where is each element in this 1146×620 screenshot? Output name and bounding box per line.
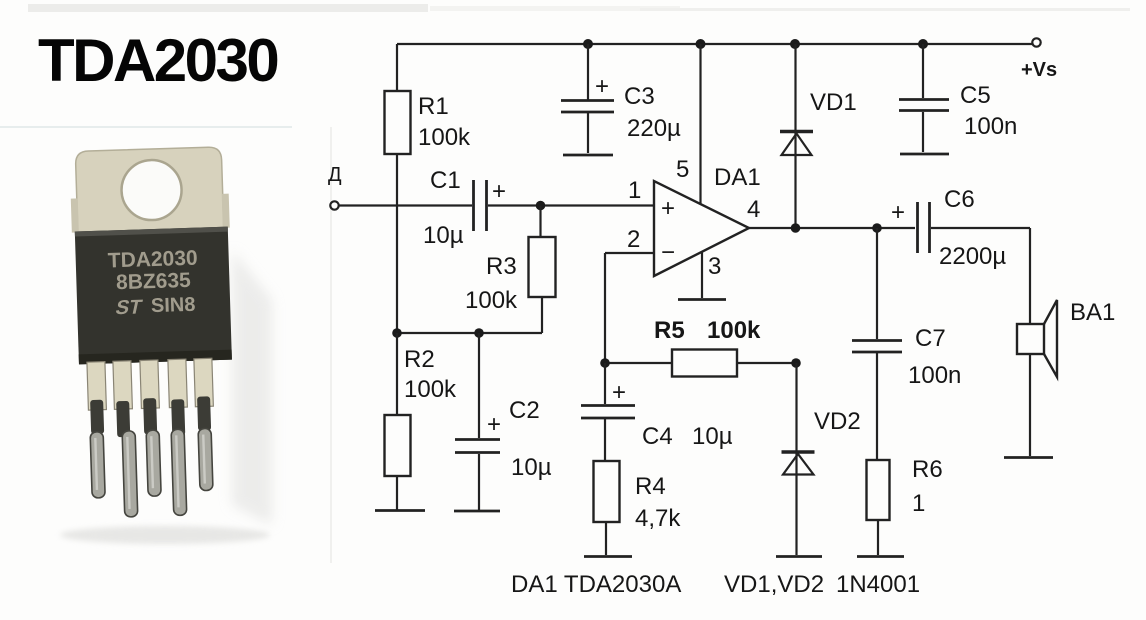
svg-text:3: 3: [708, 253, 721, 280]
svg-text:R2: R2: [404, 346, 435, 373]
wire R2 bottom: [396, 476, 398, 510]
speaker BA1: [1017, 300, 1057, 377]
op-amp DA1: [654, 181, 749, 276]
svg-text:R5: R5: [654, 317, 685, 344]
svg-text:R4: R4: [635, 473, 666, 500]
ground R2: [375, 509, 425, 512]
wire C4 top: [604, 363, 606, 404]
svg-text:C5: C5: [960, 82, 991, 109]
svg-text:100n: 100n: [964, 113, 1017, 140]
node top-VD1: [790, 39, 800, 49]
svg-text:2: 2: [627, 226, 640, 253]
resistor R6: [867, 460, 890, 520]
IC leg bends: [90, 396, 211, 438]
ground C2: [454, 510, 500, 513]
IC metal tab: [75, 147, 224, 236]
node pin2-C4: [600, 358, 610, 368]
wire C5 top: [922, 44, 924, 98]
svg-text:+: +: [595, 73, 609, 100]
capacitor C5: [899, 100, 949, 111]
svg-text:SIN8: SIN8: [151, 294, 196, 317]
wire C7 top: [876, 228, 878, 339]
wire C4 to R4: [604, 419, 606, 461]
IC body text: [107, 247, 199, 320]
node out-VD1: [791, 223, 801, 233]
IC photo: [60, 147, 272, 544]
wire C2 bottom: [478, 454, 480, 510]
svg-text:5: 5: [676, 156, 689, 183]
wire pin5: [699, 44, 701, 204]
svg-text:C6: C6: [944, 186, 975, 213]
ground R4: [584, 555, 632, 558]
svg-text:VD1: VD1: [810, 89, 857, 116]
ground C5: [900, 153, 949, 156]
wire R5 left: [605, 362, 672, 364]
svg-text:100n: 100n: [908, 362, 961, 389]
resistor R1: [385, 91, 411, 154]
ground C3: [563, 154, 613, 157]
node bias-R2: [392, 328, 402, 338]
wire C3 bottom: [587, 113, 589, 153]
svg-text:C4: C4: [642, 423, 673, 450]
wire C2 top: [478, 333, 480, 438]
svg-text:BA1: BA1: [1070, 299, 1115, 326]
wire R6 bottom: [877, 520, 879, 555]
svg-text:C7: C7: [915, 325, 946, 352]
node bias-C2: [474, 328, 484, 338]
node top-C5: [918, 39, 928, 49]
wire output: [749, 227, 915, 229]
ground pin3: [678, 298, 726, 301]
node top-pin5: [696, 39, 706, 49]
schematic labels: [328, 59, 1115, 598]
node out-C7: [872, 223, 882, 233]
wire R4 bottom: [605, 522, 607, 555]
wire R1 bottom to bias node: [396, 154, 398, 333]
svg-text:100k: 100k: [404, 376, 457, 403]
svg-text:C3: C3: [624, 83, 655, 110]
resistor R3: [529, 237, 556, 297]
terminal +Vs: [1032, 38, 1040, 46]
svg-text:DA1 TDA2030A: DA1 TDA2030A: [511, 571, 681, 598]
diode VD1: [780, 132, 813, 156]
svg-text:VD2: VD2: [814, 408, 861, 435]
svg-text:+: +: [492, 178, 506, 205]
capacitor C6: [918, 202, 930, 253]
svg-text:4: 4: [747, 196, 760, 223]
wire top supply rail: [397, 43, 1036, 45]
node top-C3: [583, 39, 593, 49]
terminal input: [330, 201, 338, 209]
ground VD2: [776, 555, 822, 558]
capacitor C3: [561, 101, 614, 113]
capacitor C1: [474, 180, 487, 231]
svg-text:4,7k: 4,7k: [635, 505, 681, 532]
svg-text:+: +: [661, 195, 675, 222]
svg-text:10µ: 10µ: [511, 454, 552, 481]
wire C6 to speaker: [931, 228, 1030, 324]
wire C7 to R6: [876, 353, 878, 460]
wire R5 right: [737, 362, 796, 364]
IC lower legs: [90, 428, 214, 518]
wire C3 top: [587, 44, 589, 100]
svg-text:+: +: [612, 379, 626, 406]
svg-text:R1: R1: [418, 93, 449, 120]
svg-text:+: +: [891, 199, 905, 226]
IC body: [75, 227, 232, 365]
wire VD1: [794, 44, 796, 228]
ground BA1: [1004, 456, 1053, 459]
IC tab hole: [121, 159, 183, 221]
resistor R5: [672, 350, 737, 377]
wire R3 bottom: [541, 297, 543, 333]
wire VD2: [795, 363, 797, 555]
svg-text:2200µ: 2200µ: [939, 243, 1006, 270]
wire pin3: [701, 252, 703, 298]
svg-text:R6: R6: [912, 456, 943, 483]
wire R1 top: [396, 44, 398, 91]
svg-text:10µ: 10µ: [692, 423, 733, 450]
svg-text:+Vs: +Vs: [1021, 59, 1057, 81]
resistor R2: [385, 415, 411, 476]
svg-text:DA1: DA1: [714, 164, 761, 191]
svg-text:R3: R3: [486, 253, 517, 280]
svg-text:100k: 100k: [418, 124, 471, 151]
diode VD2: [782, 452, 815, 475]
wire C1 to pin1: [488, 204, 654, 206]
svg-text:+: +: [487, 411, 501, 438]
svg-text:100k: 100k: [465, 287, 518, 314]
photo shadow: [232, 250, 272, 525]
node input-R3: [536, 201, 546, 211]
wire C5 bottom: [922, 112, 924, 152]
node R5-VD2: [791, 358, 801, 368]
wire input to C1: [339, 204, 472, 206]
svg-text:−: −: [661, 239, 675, 266]
wire bias rail: [397, 332, 542, 334]
wire pin2: [605, 253, 654, 363]
wire BA1 bottom: [1029, 354, 1031, 456]
capacitor C4: [581, 406, 635, 419]
IC leg stubs: [87, 358, 213, 410]
svg-text:TDA2030: TDA2030: [38, 27, 277, 94]
svg-text:100k: 100k: [707, 317, 761, 344]
svg-text:C1: C1: [430, 167, 461, 194]
capacitor C2: [455, 440, 500, 453]
svg-text:Д: Д: [328, 164, 342, 186]
svg-text:1: 1: [912, 490, 925, 517]
wire R3 top: [539, 206, 541, 238]
svg-text:1: 1: [628, 177, 641, 204]
capacitor C7: [852, 341, 902, 353]
svg-text:C2: C2: [509, 397, 540, 424]
svg-text:10µ: 10µ: [423, 222, 464, 249]
wire R2 top: [396, 333, 398, 415]
svg-text:VD1,VD2: VD1,VD2: [724, 571, 824, 598]
svg-text:1N4001: 1N4001: [836, 571, 920, 598]
svg-text:220µ: 220µ: [627, 115, 681, 142]
resistor R4: [594, 461, 620, 522]
svg-text:8BZ635: 8BZ635: [116, 269, 192, 294]
ground R6: [857, 555, 904, 558]
